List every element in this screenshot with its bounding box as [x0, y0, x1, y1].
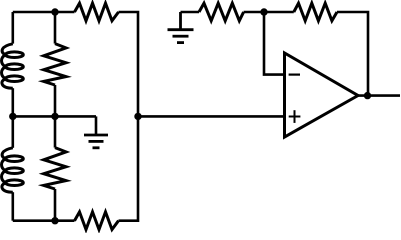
wire left column lower	[12, 192, 15, 221]
wire top rail right with right-side vertical and bottom corner	[119, 12, 139, 221]
node: junction dot left mid	[9, 113, 16, 120]
op-amp U1 minus sign	[289, 73, 300, 75]
inductor L2 (lower left coil)	[2, 148, 24, 192]
ground G1 (bridge midpoint)	[84, 135, 108, 148]
wire left column upper	[12, 12, 15, 44]
wire left column middle	[12, 88, 15, 148]
resistor R3 (lower middle, vertical)	[44, 148, 66, 189]
wire middle column upper	[54, 12, 57, 44]
op-amp U1 plus sign	[289, 110, 301, 123]
resistor R6 (feedback)	[294, 3, 337, 21]
wire inverting node down and to op-amp minus input	[264, 12, 285, 75]
node: junction dot output	[364, 92, 371, 99]
wire middle rail	[13, 115, 96, 118]
node: junction dot center mid	[51, 113, 58, 120]
wire op-amp output	[358, 94, 400, 97]
wire bottom rail left	[13, 219, 75, 222]
ground G2 (op-amp input resistor)	[168, 12, 194, 43]
op-amp U1 triangle	[285, 53, 359, 137]
resistor R2 (upper middle, vertical)	[44, 44, 66, 85]
resistor R1 (top of bridge)	[75, 3, 119, 21]
inductor L1 (upper left coil)	[2, 44, 24, 88]
wire middle column lower	[54, 189, 57, 221]
node: junction dot right mid	[134, 113, 141, 120]
node: junction dot top of bridge	[51, 8, 58, 15]
wire top rail left	[13, 11, 75, 14]
wire middle column center	[54, 85, 57, 148]
wire R6 to output node	[337, 12, 368, 96]
resistor R5 (op-amp input)	[199, 3, 244, 21]
node: junction dot inverting input node	[260, 8, 267, 15]
wire ground to R5	[181, 11, 200, 14]
resistor R4 (bottom of bridge)	[75, 212, 119, 230]
node: junction dot bottom of bridge	[51, 217, 58, 224]
wire ground stub	[95, 116, 98, 135]
wire R5 to R6 through inverting node	[244, 11, 294, 14]
wire bridge output to op-amp noninverting input	[138, 115, 285, 118]
